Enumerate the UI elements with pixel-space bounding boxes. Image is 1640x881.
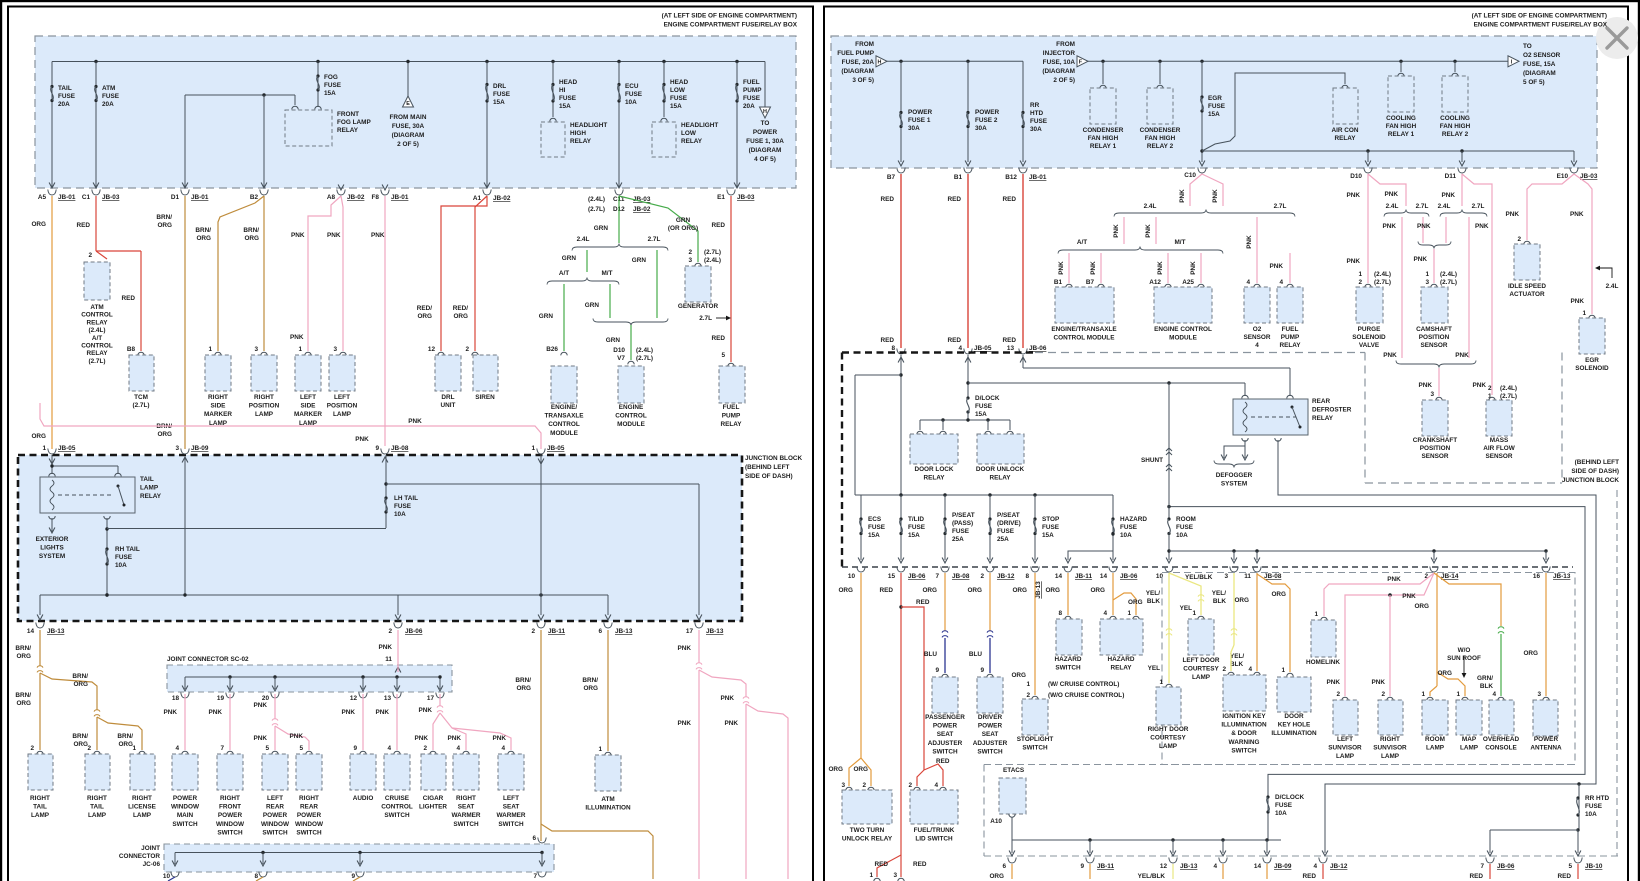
svg-text:15A: 15A xyxy=(1208,111,1220,118)
svg-text:12: 12 xyxy=(350,695,358,702)
svg-text:ORG: ORG xyxy=(31,433,46,440)
right sunvisor lamp xyxy=(1378,700,1403,735)
svg-text:JB-08: JB-08 xyxy=(391,445,409,452)
svg-text:(AT LEFT SIDE OF ENGINE COMPAR: (AT LEFT SIDE OF ENGINE COMPARTMENT) xyxy=(662,13,797,20)
svg-text:FUSE: FUSE xyxy=(670,95,688,102)
svg-text:PNK: PNK xyxy=(678,720,692,727)
svg-text:6: 6 xyxy=(532,835,536,842)
svg-text:JB-13: JB-13 xyxy=(1180,863,1198,870)
engine compartment fuse/relay box (left page) xyxy=(35,36,796,188)
junction block borders (right page) xyxy=(842,351,1035,353)
svg-text:SWITCH: SWITCH xyxy=(453,821,479,828)
svg-text:LAMP: LAMP xyxy=(1381,753,1400,760)
svg-text:RED: RED xyxy=(948,196,962,203)
svg-text:ENGINE/TRANSAXLE: ENGINE/TRANSAXLE xyxy=(1051,326,1117,333)
T/LID fuse xyxy=(900,495,902,560)
svg-text:(2.7L): (2.7L) xyxy=(636,355,653,362)
svg-text:B1: B1 xyxy=(954,174,963,181)
svg-text:PNK: PNK xyxy=(1090,261,1097,275)
svg-text:GENERATOR: GENERATOR xyxy=(678,303,719,310)
svg-text:MODULE: MODULE xyxy=(550,430,578,437)
right license lamp xyxy=(139,751,145,754)
bottom connectors of junction block xyxy=(36,623,44,629)
svg-text:25A: 25A xyxy=(952,536,964,543)
svg-text:1: 1 xyxy=(1425,271,1429,278)
svg-text:DRL: DRL xyxy=(493,83,506,90)
svg-text:15A: 15A xyxy=(908,532,920,539)
D10 pink tree xyxy=(1367,174,1369,283)
svg-text:B7: B7 xyxy=(887,174,896,181)
svg-text:PNK: PNK xyxy=(1455,352,1469,359)
connector C11/D12 xyxy=(615,190,623,196)
connector C1 JB-03 xyxy=(92,190,100,196)
svg-text:RED: RED xyxy=(712,335,726,342)
svg-text:2.7L: 2.7L xyxy=(648,236,661,243)
svg-text:YEL/: YEL/ xyxy=(1212,590,1226,597)
svg-text:BRN/: BRN/ xyxy=(72,673,88,680)
svg-text:15A: 15A xyxy=(493,99,505,106)
svg-text:FUSE: FUSE xyxy=(1030,118,1048,125)
svg-text:FUSE: FUSE xyxy=(997,528,1015,535)
svg-text:PNK: PNK xyxy=(376,709,390,716)
svg-text:2.4L: 2.4L xyxy=(1386,203,1399,210)
svg-text:2 OF 5): 2 OF 5) xyxy=(397,141,419,148)
wire 14/ORG hazard relay xyxy=(1112,573,1114,615)
siren xyxy=(472,352,478,355)
svg-text:JB-06: JB-06 xyxy=(908,573,926,580)
svg-text:LEFT: LEFT xyxy=(267,795,283,802)
svg-text:LOW: LOW xyxy=(681,130,697,137)
YEL wires courtesy lamps xyxy=(1168,573,1170,683)
svg-text:(DRIVE): (DRIVE) xyxy=(997,520,1021,527)
svg-text:SIDE OF DASH): SIDE OF DASH) xyxy=(745,473,793,480)
audio xyxy=(360,751,366,754)
JB inner bus xyxy=(184,457,186,595)
svg-text:SWITCH: SWITCH xyxy=(498,821,524,828)
svg-text:9: 9 xyxy=(353,745,357,752)
svg-text:20A: 20A xyxy=(743,103,755,110)
svg-text:ORG: ORG xyxy=(157,222,172,229)
svg-text:UNIT: UNIT xyxy=(441,402,456,409)
svg-text:SWITCH: SWITCH xyxy=(217,829,243,836)
svg-text:POSITION: POSITION xyxy=(1419,334,1450,341)
svg-text:RIGHT DOOR: RIGHT DOOR xyxy=(1148,726,1189,733)
brace A/T M/T xyxy=(547,278,619,285)
svg-text:15A: 15A xyxy=(868,532,880,539)
JB bottom connectors (right page) xyxy=(857,567,865,573)
svg-text:10A: 10A xyxy=(1585,811,1597,818)
svg-text:TAIL: TAIL xyxy=(58,85,72,92)
engine compartment fuse/relay box (right page) xyxy=(831,36,1597,168)
svg-text:20A: 20A xyxy=(58,101,70,108)
svg-text:CONTROL MODULE: CONTROL MODULE xyxy=(1054,335,1116,342)
connector 1 JB-05 (pnk) mid xyxy=(537,449,545,455)
svg-text:2.7L: 2.7L xyxy=(1472,203,1485,210)
svg-text:CONTROL: CONTROL xyxy=(615,413,647,420)
power fuse 1 xyxy=(900,61,902,162)
svg-text:LAMP: LAMP xyxy=(133,812,152,819)
svg-text:RELAY 1: RELAY 1 xyxy=(1388,131,1415,138)
svg-text:9: 9 xyxy=(980,667,984,674)
svg-text:(2.7L): (2.7L) xyxy=(88,358,105,365)
svg-text:SHUNT: SHUNT xyxy=(1141,457,1163,464)
svg-text:SOLENOID: SOLENOID xyxy=(1352,334,1386,341)
svg-text:PNK: PNK xyxy=(1347,192,1361,199)
svg-text:SEAT: SEAT xyxy=(937,731,954,738)
svg-text:JB-06: JB-06 xyxy=(1120,573,1138,580)
svg-text:PNK: PNK xyxy=(1383,352,1397,359)
door key hole illumination xyxy=(1277,677,1311,712)
svg-text:WARMER: WARMER xyxy=(496,812,525,819)
svg-text:13: 13 xyxy=(1007,345,1015,352)
svg-text:PUMP: PUMP xyxy=(743,87,762,94)
svg-text:CAMSHAFT: CAMSHAFT xyxy=(1416,326,1452,333)
svg-text:WARNING: WARNING xyxy=(1229,739,1260,746)
svg-text:ORG: ORG xyxy=(828,766,843,773)
svg-text:ORG: ORG xyxy=(244,235,259,242)
svg-text:ORG: ORG xyxy=(1523,650,1538,657)
engine control module xyxy=(628,361,634,364)
svg-text:WARMER: WARMER xyxy=(451,812,480,819)
svg-text:RED: RED xyxy=(881,196,895,203)
svg-text:M/T: M/T xyxy=(601,270,612,277)
shunt xyxy=(1168,383,1170,519)
svg-text:PNK: PNK xyxy=(1270,263,1284,270)
svg-text:8: 8 xyxy=(254,873,258,880)
svg-text:MODULE: MODULE xyxy=(617,421,645,428)
svg-text:JB-08: JB-08 xyxy=(952,573,970,580)
cigar lighter xyxy=(430,751,436,754)
RED power wires to junction block xyxy=(900,174,902,348)
svg-text:FUSE, 30A: FUSE, 30A xyxy=(392,123,425,130)
svg-text:FAN HIGH: FAN HIGH xyxy=(1145,135,1176,142)
svg-text:LAMP: LAMP xyxy=(140,485,159,492)
svg-text:10A: 10A xyxy=(394,511,406,518)
svg-text:RED: RED xyxy=(122,295,136,302)
wire 2/ORG-BLU driver seat xyxy=(989,573,991,631)
SC-02 output pin connectors xyxy=(181,693,189,699)
svg-text:GRN: GRN xyxy=(632,257,647,264)
svg-text:(2.7L): (2.7L) xyxy=(132,402,149,409)
svg-text:BRN/: BRN/ xyxy=(72,733,88,740)
svg-text:1: 1 xyxy=(1314,611,1318,618)
svg-text:RELAY: RELAY xyxy=(989,475,1011,482)
svg-text:2.4L: 2.4L xyxy=(577,236,590,243)
svg-text:15A: 15A xyxy=(670,103,682,110)
svg-text:PNK: PNK xyxy=(1506,211,1520,218)
svg-text:2: 2 xyxy=(30,745,34,752)
svg-text:SWITCH: SWITCH xyxy=(977,748,1003,755)
svg-text:3: 3 xyxy=(254,346,258,353)
svg-text:9: 9 xyxy=(1080,863,1084,870)
svg-text:RED: RED xyxy=(936,758,950,765)
svg-text:JB-11: JB-11 xyxy=(1097,863,1114,870)
svg-text:FUSE: FUSE xyxy=(394,503,412,510)
svg-text:JB-05: JB-05 xyxy=(974,345,992,352)
svg-text:RIGHT: RIGHT xyxy=(87,795,107,802)
air con relay feed path xyxy=(1202,73,1345,151)
svg-text:2: 2 xyxy=(88,252,92,259)
svg-text:4: 4 xyxy=(1255,342,1259,349)
svg-text:T/LID: T/LID xyxy=(908,516,924,523)
svg-text:COOLING: COOLING xyxy=(1386,115,1416,122)
svg-text:1: 1 xyxy=(1582,310,1586,317)
svg-text:FUEL: FUEL xyxy=(723,404,740,411)
svg-text:A/T: A/T xyxy=(559,270,569,277)
svg-text:JB-11: JB-11 xyxy=(1075,573,1092,580)
svg-text:4: 4 xyxy=(456,745,460,752)
fuel pump relay (right) xyxy=(1289,253,1291,283)
svg-text:GRN/: GRN/ xyxy=(1477,675,1493,682)
svg-text:LAMP: LAMP xyxy=(255,411,274,418)
svg-text:UNLOCK RELAY: UNLOCK RELAY xyxy=(842,836,893,843)
svg-text:RELAY: RELAY xyxy=(86,319,108,326)
svg-text:30A: 30A xyxy=(975,125,987,132)
wire 7/ORG-BLU passenger seat xyxy=(944,573,946,631)
svg-text:ORG: ORG xyxy=(417,313,432,320)
svg-text:RIGHT: RIGHT xyxy=(299,795,319,802)
svg-text:D1: D1 xyxy=(171,194,180,201)
connector D1 JB-01 xyxy=(181,190,189,196)
svg-text:3: 3 xyxy=(333,346,337,353)
svg-text:FUSE, 10A: FUSE, 10A xyxy=(1043,59,1076,66)
svg-text:FOG LAMP: FOG LAMP xyxy=(337,119,371,126)
camshaft feed brace xyxy=(1418,242,1451,249)
svg-text:& DOOR: & DOOR xyxy=(1231,730,1257,737)
right position lamp xyxy=(261,352,267,355)
svg-text:PNK: PNK xyxy=(448,735,462,742)
svg-text:RED: RED xyxy=(712,222,726,229)
svg-text:YEL/BLK: YEL/BLK xyxy=(1138,873,1166,880)
svg-text:ORG: ORG xyxy=(516,685,531,692)
svg-text:REAR: REAR xyxy=(300,804,318,811)
fuel/trunk lid switch xyxy=(910,790,958,824)
two turn unlock relay xyxy=(842,790,892,824)
svg-text:LIGHTS: LIGHTS xyxy=(40,545,64,552)
svg-text:5: 5 xyxy=(299,745,303,752)
svg-text:ORG: ORG xyxy=(1234,597,1249,604)
svg-text:BRN/: BRN/ xyxy=(15,692,31,699)
ORG wire A5 to junction block xyxy=(51,196,53,449)
svg-text:ADJUSTER: ADJUSTER xyxy=(973,740,1008,747)
right page border xyxy=(824,7,1628,881)
svg-text:PNK: PNK xyxy=(1414,256,1428,263)
svg-text:JB-03: JB-03 xyxy=(102,194,120,201)
svg-text:CONTROL: CONTROL xyxy=(81,343,113,350)
svg-text:P/SEAT: P/SEAT xyxy=(952,512,975,519)
right top box connectors xyxy=(897,168,905,174)
room bus feed to right gutter / d-clock xyxy=(1169,507,1585,840)
svg-text:1: 1 xyxy=(1026,681,1030,688)
RED branch to TCM xyxy=(96,250,141,252)
svg-text:CONNECTOR: CONNECTOR xyxy=(119,853,160,860)
svg-text:1: 1 xyxy=(1127,610,1131,617)
to power fuse triangle H xyxy=(764,62,766,108)
svg-text:2: 2 xyxy=(908,782,912,789)
svg-text:10: 10 xyxy=(163,873,171,880)
svg-text:BLK: BLK xyxy=(1147,598,1161,605)
svg-text:FUSE: FUSE xyxy=(324,82,342,89)
svg-text:PNK: PNK xyxy=(1571,298,1585,305)
svg-text:SUNVISOR: SUNVISOR xyxy=(1373,745,1407,752)
BRN/ORG wire 6 JB-13 to ATM illumination xyxy=(607,630,609,751)
wire 10/ORG to two-turn unlock relay xyxy=(860,573,862,758)
svg-text:4: 4 xyxy=(1492,691,1496,698)
svg-text:F8: F8 xyxy=(372,194,380,201)
rear defroster relay xyxy=(1244,383,1246,396)
svg-text:GRN: GRN xyxy=(676,217,691,224)
connector 1 JB-05 (org) xyxy=(48,449,56,455)
svg-text:RELAY: RELAY xyxy=(1334,135,1356,142)
svg-text:1: 1 xyxy=(132,745,136,752)
svg-text:ORG: ORG xyxy=(73,681,88,688)
svg-text:VALVE: VALVE xyxy=(1359,342,1380,349)
svg-text:PNK: PNK xyxy=(327,232,341,239)
svg-text:EGR: EGR xyxy=(1208,95,1222,102)
svg-text:HI: HI xyxy=(559,87,566,94)
svg-text:ENGINE COMPARTMENT FUSE/RELAY: ENGINE COMPARTMENT FUSE/RELAY BOX xyxy=(1474,22,1608,29)
svg-text:1: 1 xyxy=(298,346,302,353)
cooling fan high relay 2 xyxy=(1454,61,1456,72)
svg-text:B1: B1 xyxy=(1054,279,1063,286)
svg-text:POWER: POWER xyxy=(908,109,933,116)
svg-text:SOLENOID: SOLENOID xyxy=(1575,365,1609,372)
defroster to rr htd feed xyxy=(1278,440,1596,853)
svg-text:PNK: PNK xyxy=(1157,261,1164,275)
svg-text:REAR: REAR xyxy=(266,804,284,811)
svg-text:HAZARD: HAZARD xyxy=(1055,656,1082,663)
svg-text:LAMP: LAMP xyxy=(1460,745,1479,752)
svg-text:2.4L: 2.4L xyxy=(1144,203,1157,210)
svg-text:13: 13 xyxy=(384,695,392,702)
cruise control switch xyxy=(394,751,400,754)
svg-text:PNK: PNK xyxy=(1058,261,1065,275)
svg-text:6: 6 xyxy=(598,628,602,635)
svg-text:HAZARD: HAZARD xyxy=(1108,656,1135,663)
svg-text:AUDIO: AUDIO xyxy=(353,795,374,802)
svg-text:9: 9 xyxy=(935,667,939,674)
svg-text:4: 4 xyxy=(1248,666,1252,673)
svg-text:ORG: ORG xyxy=(1128,599,1143,606)
JC-06 pin 6 entry xyxy=(538,838,546,844)
svg-text:YEL/BLK: YEL/BLK xyxy=(1185,574,1213,581)
svg-text:RELAY: RELAY xyxy=(1312,415,1334,422)
svg-text:4: 4 xyxy=(1279,279,1283,286)
svg-text:ORG: ORG xyxy=(989,873,1004,880)
right tail lamp 1 xyxy=(37,751,43,754)
svg-text:RELAY: RELAY xyxy=(1110,665,1132,672)
junction block (left page) xyxy=(18,455,742,621)
svg-text:4: 4 xyxy=(1103,610,1107,617)
svg-text:(2.7L): (2.7L) xyxy=(588,206,605,213)
svg-text:JB-12: JB-12 xyxy=(997,573,1015,580)
svg-text:JB-09: JB-09 xyxy=(191,445,209,452)
svg-text:COOLING: COOLING xyxy=(1440,115,1470,122)
svg-text:AIR FLOW: AIR FLOW xyxy=(1483,445,1516,452)
svg-text:ORG: ORG xyxy=(1414,603,1429,610)
svg-text:ILLUMINATION: ILLUMINATION xyxy=(1271,730,1317,737)
svg-text:BRN/: BRN/ xyxy=(515,677,531,684)
svg-text:SWITCH: SWITCH xyxy=(1022,745,1048,752)
svg-text:A25: A25 xyxy=(1182,279,1194,286)
svg-text:14: 14 xyxy=(27,628,35,635)
svg-text:KEY HOLE: KEY HOLE xyxy=(1278,722,1311,729)
svg-text:7: 7 xyxy=(935,573,939,580)
A1 RED wires to DRL unit and siren xyxy=(441,196,487,351)
svg-text:JC-06: JC-06 xyxy=(143,861,161,868)
svg-text:JB-06: JB-06 xyxy=(1029,345,1047,352)
svg-text:LICENSE: LICENSE xyxy=(128,804,156,811)
svg-text:DOOR LOCK: DOOR LOCK xyxy=(914,466,953,473)
svg-text:JOINT CONNECTOR SC-02: JOINT CONNECTOR SC-02 xyxy=(167,656,249,663)
svg-text:POSITION: POSITION xyxy=(327,403,358,410)
svg-text:PNK: PNK xyxy=(1402,593,1416,600)
svg-text:FUSE: FUSE xyxy=(1275,802,1293,809)
svg-text:SWITCH: SWITCH xyxy=(296,829,322,836)
left sunvisor lamp xyxy=(1333,700,1358,735)
svg-text:1: 1 xyxy=(208,346,212,353)
svg-text:CONTROL: CONTROL xyxy=(548,421,580,428)
wire 8/ORG stoplight xyxy=(1034,573,1036,695)
svg-text:2: 2 xyxy=(423,745,427,752)
svg-text:LEFT: LEFT xyxy=(1337,736,1353,743)
svg-text:TCM: TCM xyxy=(134,394,148,401)
svg-text:RED: RED xyxy=(1303,873,1317,880)
svg-text:DEFROSTER: DEFROSTER xyxy=(1312,407,1352,414)
svg-text:10A: 10A xyxy=(625,99,637,106)
svg-text:30A: 30A xyxy=(1030,126,1042,133)
svg-text:JB-11: JB-11 xyxy=(548,628,565,635)
svg-text:FUSE: FUSE xyxy=(1042,524,1060,531)
svg-text:1: 1 xyxy=(1192,610,1196,617)
svg-text:TAIL: TAIL xyxy=(140,476,154,483)
PNK wire F8 down to 9 JB-08 xyxy=(384,196,386,446)
svg-text:FUSE: FUSE xyxy=(908,524,926,531)
svg-text:JB-13: JB-13 xyxy=(706,628,724,635)
svg-text:YEL: YEL xyxy=(1180,605,1193,612)
svg-text:2: 2 xyxy=(1026,692,1030,699)
svg-text:COURTESY: COURTESY xyxy=(1183,666,1219,673)
svg-text:GRN: GRN xyxy=(562,255,577,262)
svg-text:3: 3 xyxy=(1537,691,1541,698)
connector 9 JB-08 (pnk) xyxy=(381,449,389,455)
svg-text:1: 1 xyxy=(1456,691,1460,698)
svg-text:RED: RED xyxy=(1003,337,1017,344)
svg-text:FUSE: FUSE xyxy=(1176,524,1194,531)
svg-text:B8: B8 xyxy=(127,346,136,353)
svg-text:3: 3 xyxy=(841,782,845,789)
EGR solenoid xyxy=(1579,318,1605,354)
svg-text:15A: 15A xyxy=(975,411,987,418)
svg-text:JB-03: JB-03 xyxy=(1580,173,1598,180)
defogger system xyxy=(1224,440,1245,458)
svg-text:JB-01: JB-01 xyxy=(391,194,409,201)
svg-text:PUMP: PUMP xyxy=(1281,334,1300,341)
crankshaft position sensor xyxy=(1436,397,1442,400)
svg-text:3: 3 xyxy=(1425,279,1429,286)
svg-text:TO: TO xyxy=(1523,43,1532,50)
svg-text:8: 8 xyxy=(1025,573,1029,580)
GRN wiring C11 tree xyxy=(618,196,620,243)
svg-text:SENSOR: SENSOR xyxy=(1486,453,1513,460)
svg-text:4 OF 5): 4 OF 5) xyxy=(754,156,776,163)
svg-text:MAIN: MAIN xyxy=(177,812,194,819)
svg-text:CONTROL: CONTROL xyxy=(381,804,413,811)
svg-text:ATM: ATM xyxy=(90,304,103,311)
svg-text:2: 2 xyxy=(87,745,91,752)
left seat warmer switch xyxy=(508,751,514,754)
svg-text:FUSE 1: FUSE 1 xyxy=(908,117,931,124)
